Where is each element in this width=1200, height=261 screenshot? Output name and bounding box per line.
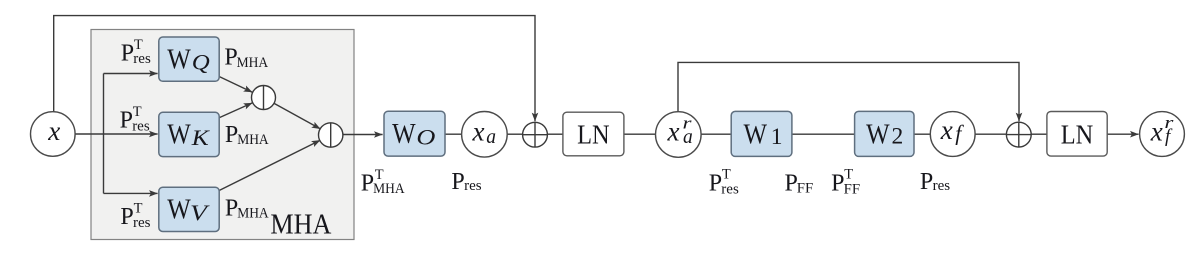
svg-text:P: P — [831, 171, 844, 197]
svg-text:x: x — [667, 117, 680, 147]
label P_res below x_a — [451, 169, 481, 195]
wire LN1 to x_a_r — [624, 133, 656, 135]
svg-text:Q: Q — [192, 50, 210, 75]
svg-text:P: P — [120, 204, 133, 230]
svg-text:W: W — [167, 119, 191, 151]
wire W_2 to x_f — [914, 133, 930, 135]
svg-text:LN: LN — [577, 120, 610, 150]
svg-text:P: P — [920, 169, 933, 195]
svg-text:W: W — [744, 118, 768, 150]
svg-text:T: T — [844, 167, 853, 183]
svg-text:W: W — [392, 118, 416, 150]
wire branch to W_V — [104, 192, 158, 194]
wire adder1 to LN1 — [547, 133, 563, 135]
wire skip connection 2 (x_a_r to adder2) — [678, 62, 1019, 121]
svg-text:P: P — [451, 169, 464, 195]
svg-text:MHA: MHA — [237, 206, 269, 222]
svg-text:res: res — [721, 181, 739, 197]
wire adder2 to LN2 — [1031, 133, 1046, 135]
label P_FF^T below W_2 left — [831, 167, 860, 198]
label P_MHA^T below W_O — [361, 167, 405, 197]
node x_f — [930, 112, 975, 157]
wire x_a_r to W_1 — [701, 133, 731, 135]
svg-text:P: P — [709, 171, 722, 197]
svg-text:MHA: MHA — [270, 210, 332, 241]
label P_MHA after W_K — [225, 122, 269, 148]
svg-text:x: x — [940, 115, 953, 145]
box W_Q — [159, 37, 219, 81]
svg-text:W: W — [167, 44, 191, 76]
wire x_a to adder1 — [507, 133, 522, 135]
svg-text:a: a — [683, 127, 693, 148]
svg-text:res: res — [132, 118, 150, 134]
svg-text:P: P — [361, 171, 374, 197]
label P_MHA after W_V — [225, 196, 269, 222]
label P_res^T for W_V — [120, 200, 150, 231]
svg-text:res: res — [464, 178, 482, 194]
svg-text:FF: FF — [797, 181, 814, 197]
wire W_V to concat2 — [219, 140, 320, 190]
svg-text:LN: LN — [1061, 120, 1094, 150]
svg-text:x: x — [1150, 116, 1163, 146]
wire LN2 to x_f_r — [1107, 133, 1138, 135]
wire W_Q to concat1 — [219, 77, 252, 93]
svg-text:P: P — [121, 40, 134, 66]
wire W_1 to W_2 — [792, 133, 855, 135]
wire branch to W_Q — [104, 73, 158, 75]
svg-text:MHA: MHA — [237, 55, 269, 71]
label MHA — [270, 210, 332, 241]
wire branch vertical — [103, 74, 105, 194]
concat node 1 — [252, 86, 276, 110]
svg-text:MHA: MHA — [373, 181, 405, 197]
svg-text:O: O — [416, 124, 435, 149]
box W_2 — [855, 111, 914, 156]
wire x_f to adder2 — [975, 133, 1006, 135]
svg-text:K: K — [191, 125, 211, 150]
box W_1 — [731, 111, 792, 156]
svg-text:FF: FF — [844, 181, 861, 197]
box LN2 — [1047, 112, 1107, 157]
wire W_K to concat1 — [219, 103, 252, 118]
svg-text:2: 2 — [892, 124, 904, 150]
svg-text:W: W — [167, 193, 191, 225]
svg-text:res: res — [133, 51, 151, 67]
svg-text:res: res — [933, 178, 951, 194]
concat node 2 — [319, 123, 343, 147]
wire W_O to x_a — [445, 133, 461, 135]
svg-text:x: x — [472, 116, 485, 146]
svg-text:W: W — [866, 118, 890, 150]
label P_res^T for W_K — [120, 104, 150, 134]
svg-text:a: a — [486, 127, 496, 148]
label P_res^T for W_Q — [121, 37, 151, 67]
node x_f_r — [1140, 112, 1185, 157]
wire concat2 to W_O — [343, 134, 383, 136]
svg-text:1: 1 — [771, 124, 783, 150]
MHA container box — [91, 30, 354, 240]
box W_K — [159, 112, 219, 156]
adder node 1 — [523, 122, 548, 147]
svg-text:P: P — [120, 108, 133, 134]
box W_O — [384, 111, 445, 156]
label P_FF below W_1 right — [785, 171, 814, 197]
adder node 2 — [1006, 122, 1031, 147]
wire concat1 to concat2 — [274, 103, 320, 128]
node x_a_r — [656, 112, 702, 158]
label P_MHA after W_Q — [224, 45, 268, 71]
svg-text:res: res — [133, 215, 151, 231]
box LN1 — [563, 112, 624, 156]
svg-text:x: x — [47, 116, 60, 146]
node x_a — [462, 112, 508, 158]
box W_V — [159, 187, 219, 231]
svg-text:T: T — [722, 167, 731, 183]
wire skip connection 1 (x to adder1) — [54, 16, 535, 122]
svg-text:MHA: MHA — [237, 132, 269, 148]
label P_res below x_f — [920, 169, 950, 195]
node x — [31, 112, 76, 157]
wire x to W_K — [75, 133, 157, 135]
label P_res^T below W_1 left — [709, 167, 739, 198]
